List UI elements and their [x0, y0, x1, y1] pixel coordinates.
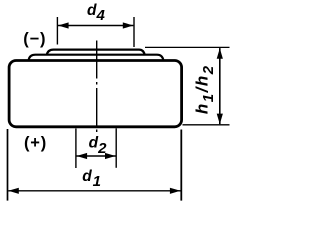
dimension d2 line with arrows [77, 153, 116, 159]
label d2 [89, 135, 107, 157]
dimension d2 extension line right [115, 128, 117, 168]
middle gasket step [29, 55, 164, 61]
dimension d4 extension line right [133, 17, 135, 47]
height extension line bottom (from body base) [183, 124, 230, 126]
dimension d4 extension line left [56, 17, 58, 45]
svg-text:(+): (+) [24, 134, 47, 152]
svg-text:d1: d1 [82, 168, 102, 190]
label (+) positive terminal [24, 134, 47, 152]
dimension d4 line with arrows [58, 22, 133, 28]
vertical centerline (dash-dot) [96, 41, 98, 133]
battery body (can, positive case) [9, 61, 182, 127]
svg-text:(−): (−) [23, 30, 46, 48]
dimension d1 extension line left [7, 129, 9, 201]
svg-text:d2: d2 [89, 135, 107, 157]
label h1/h2 (rotated) [193, 64, 217, 114]
label (-) negative terminal [23, 30, 46, 48]
dimension h line with arrows [217, 48, 223, 124]
dimension d2 extension line left [75, 129, 77, 169]
label d1 [82, 168, 102, 190]
dimension d1 extension line right [180, 130, 182, 201]
svg-text:d4: d4 [87, 2, 105, 24]
height extension line top (from cap) [145, 46, 230, 48]
label d4 [87, 2, 105, 24]
dimension d1 line with arrows [8, 188, 180, 194]
svg-text:h1/h2: h1/h2 [193, 64, 217, 114]
negative top cap step [47, 50, 145, 56]
